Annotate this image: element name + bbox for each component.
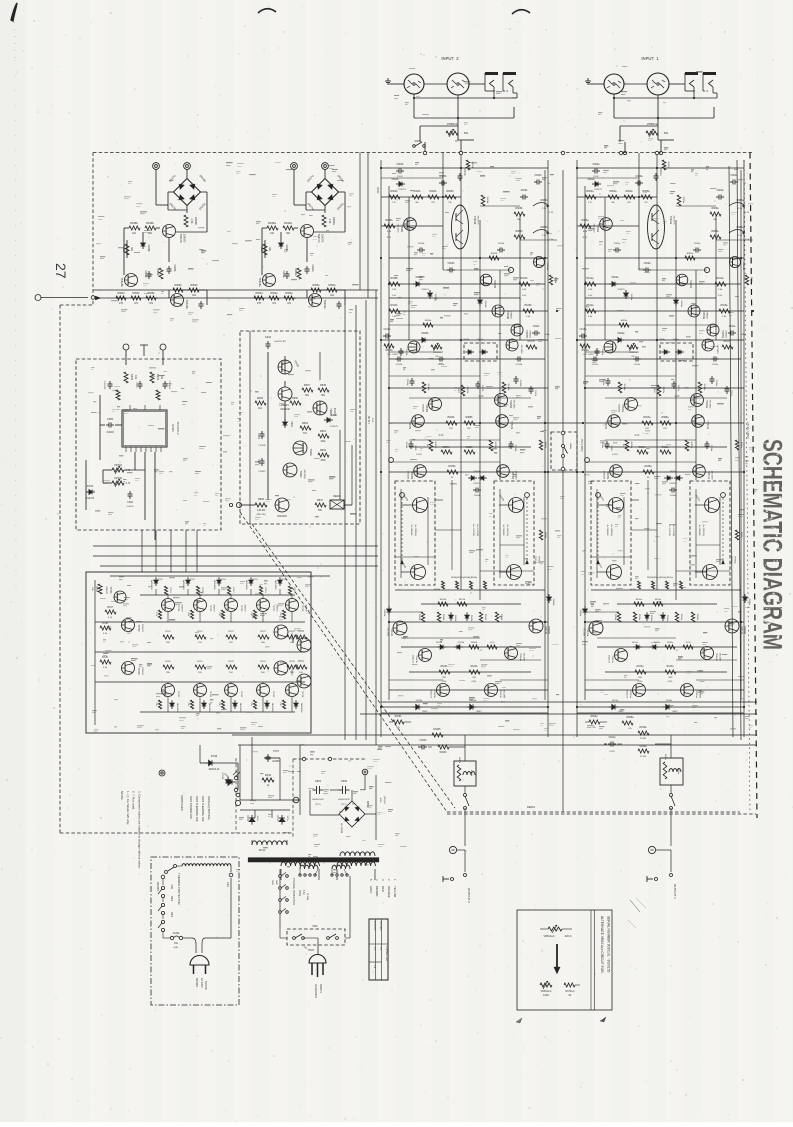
resistor R744 bottom row [282,700,285,709]
transistor TR618b 2SC2240 [125,274,138,287]
svg-text:2SB647: 2SB647 [105,586,107,595]
svg-text:C623a: C623a [311,264,314,272]
svg-text:10k: 10k [250,612,252,615]
resistor R304 [116,390,120,400]
resistor R688a 220 [660,421,671,425]
svg-text:TR713: TR713 [272,691,274,698]
SW1 dashed box 220V [287,929,345,945]
transistor TR651a output2 [607,565,622,580]
svg-text:B+ 0.47/2W: B+ 0.47/2W [472,524,474,536]
ground symbol near input 1 [588,83,594,85]
diode D607b [482,350,485,354]
svg-text:C612b: C612b [396,364,403,366]
diode D606bb [449,615,453,618]
transistor TR621a filler [730,257,741,268]
resistor R625a 33 [685,440,689,451]
diode D604b [478,300,483,303]
dashed vertical power left [235,758,237,833]
transistor TR703 2SD637 [122,662,135,675]
resistor R724 mid row [287,635,298,639]
svg-text:2SA1112: 2SA1112 [430,690,433,699]
resistor R625b 33 [489,440,493,451]
wire long rails under blocks [93,545,378,547]
svg-text:4.7k: 4.7k [126,482,131,485]
svg-text:R656a: R656a [285,292,293,295]
terminal pin chb L1 [389,458,394,463]
alternate resistor R672ab 82 [564,983,575,987]
svg-text:4x 2SB554: 4x 2SB554 [606,525,608,536]
transistor TR650a output1 [609,498,624,513]
resistor R656a 47k [589,720,600,724]
svg-text:C625b: C625b [418,243,425,245]
wire chb extra rails [381,177,443,179]
svg-text:R633b(R629b)(R634b)(R630b): R633b(R629b)(R634b)(R630b) [451,577,477,579]
transistor TR704 2SD637 top row [162,599,175,612]
svg-text:R667: R667 [317,499,324,502]
resistor R743 bottom row [253,700,256,709]
scan mark arc top center [512,10,530,14]
svg-text:R663: R663 [258,498,265,501]
svg-text:1.6V: 1.6V [522,295,527,297]
transistor TR604a 2SA810 [688,305,700,317]
svg-text:D602a: D602a [612,277,619,279]
svg-text:R604a: R604a [625,190,633,193]
svg-text:R638b: R638b [442,614,444,621]
capacitor C322 100/16V BP [267,341,269,344]
svg-text:R608b: R608b [515,207,523,210]
svg-text:TR611a: TR611a [586,628,588,637]
svg-text:R722: R722 [228,631,234,633]
svg-text:D702: D702 [87,484,94,488]
svg-text:TR616a: TR616a [695,690,697,699]
transistor TR613a [615,649,628,662]
resistor R688b 220 [464,421,475,425]
svg-text:1.6V: 1.6V [392,295,397,297]
svg-text:TR617a: TR617a [317,233,321,243]
svg-text:R730: R730 [165,661,171,663]
transistor TR604b 2SA810 [492,305,504,317]
svg-text:R624b: R624b [434,442,436,449]
dashed box bias diodes chb [464,343,497,361]
transformer secondary left [281,862,319,866]
svg-text:(2x 2SD424): (2x 2SD424) [506,524,508,536]
svg-text:R606a: R606a [581,219,589,222]
wire cha horizontal rails [577,167,744,169]
svg-text:R602a: R602a [586,190,594,193]
diode D604a [674,300,679,303]
svg-text:TR611a: TR611a [707,471,709,480]
svg-text:MG5395X: MG5395X [208,703,210,713]
svg-text:SWITCHES: SWITCHES [180,795,184,811]
svg-text:C620b: C620b [474,495,481,497]
resistor R629a [660,450,671,454]
svg-text:D609a: D609a [618,333,625,335]
resistor R608b [514,212,525,216]
svg-text:TA7317P-2: TA7317P-2 [176,422,180,435]
svg-text:10k: 10k [250,702,252,705]
svg-text:4.7k: 4.7k [126,469,131,472]
svg-text:1S2473: 1S2473 [594,189,602,191]
transistor TR702 2SD637 [122,619,135,632]
svg-text:6.3A: 6.3A [302,890,305,895]
wire cha vertical rails [576,160,578,737]
wire IC left [100,424,105,426]
relay dashed line RE601 [447,811,740,813]
svg-text:R602b: R602b [390,190,398,193]
svg-text:R645a: R645a [639,726,647,729]
svg-text:TR621a: TR621a [742,262,744,271]
svg-text:R615a: R615a [720,304,728,307]
resistor R707 4.7k [105,610,116,614]
svg-text:SCHEMATIC DIAGRAM: SCHEMATIC DIAGRAM [758,439,788,650]
svg-text:270: 270 [257,302,262,305]
svg-text:TR708: TR708 [301,605,303,612]
svg-text:R664: R664 [302,422,309,425]
svg-text:SG-1ZB44: SG-1ZB44 [340,823,342,834]
diode D710 MG5395X bottom row [170,703,174,706]
svg-text:R643b: R643b [441,666,448,668]
svg-text:D608a: D608a [659,339,666,341]
svg-text:L651b: L651b [470,770,472,777]
svg-text:C613a: C613a [601,349,603,356]
svg-text:R651a: R651a [294,268,297,276]
svg-text:R623b: R623b [447,416,455,419]
svg-text:1.6V: 1.6V [588,295,593,297]
speaker switch dashed box [551,432,577,470]
svg-text:R649b: R649b [146,221,154,225]
resistor R731 10k [296,665,307,669]
resistor R624a 33 [625,440,629,451]
transistor TR619b [171,294,184,307]
svg-text:0.0018: 0.0018 [127,506,134,508]
wire inter-channel bridges [545,422,583,424]
main dashed border top [93,152,753,154]
svg-text:R688a: R688a [661,416,669,419]
svg-text:31Tb: 31Tb [256,816,258,822]
main dashed border right outer [750,153,757,819]
svg-text:R723: R723 [260,631,266,633]
diode D606b [468,350,471,354]
transistor TR716 right big upper [274,625,288,639]
svg-text:R610a: R610a [636,599,643,601]
svg-text:R616a: R616a [582,350,589,352]
coil L651a box [660,758,683,785]
svg-text:TR704: TR704 [177,605,179,612]
svg-text:220 Ω: 220 Ω [565,935,572,938]
diode D708b vertical [225,780,230,783]
wire bridge loop a [294,204,306,206]
svg-text:R658a: R658a [626,716,634,719]
svg-text:R629a: R629a [662,447,669,449]
input jack J-2 outer [404,74,424,94]
relay contact a [670,794,673,797]
wire verticals into array [141,530,143,572]
svg-text:50/60Hz: 50/60Hz [204,981,206,990]
wire long rail y714 [360,713,757,715]
svg-text:1.8k 2W: 1.8k 2W [257,510,266,512]
wire array inner rails [94,580,96,725]
contact chain 100V [161,875,165,879]
svg-text:TR619a: TR619a [323,299,327,309]
svg-text:R628b: R628b [418,614,420,621]
svg-text:D623a: D623a [670,471,677,473]
resistor R713 top row [259,586,262,595]
resistor R622b [461,385,465,396]
resistor R619b [422,382,426,393]
resistor R656b [146,296,156,300]
pencil mark right of alt box [600,1017,606,1022]
diode D703 MG5395X top row [186,580,190,583]
output terminal 2 [449,846,456,853]
svg-text:D708: D708 [211,754,218,758]
transistor TR650b output1 [413,498,428,513]
svg-text:R627b: R627b [443,447,450,449]
svg-text:R646a: R646a [640,746,647,748]
svg-text:TR605a: TR605a [721,330,723,339]
svg-text:R616b: R616b [386,350,393,352]
transistor TR717 right big lower [274,661,288,675]
capacitor C602a [592,170,595,172]
svg-text:D651: D651 [366,801,370,808]
svg-text:10k: 10k [279,702,281,705]
svg-text:R646b: R646b [440,752,447,754]
dashed standby lines power [292,759,294,838]
transistor TR615a [633,684,646,697]
transformer primary coil [252,841,287,845]
terminal pin cha L1 [585,458,590,463]
capacitor C707 22/35V [267,754,269,757]
svg-text:C614a: C614a [712,364,719,366]
svg-text:C615a: C615a [715,380,717,387]
svg-text:(3.15A): (3.15A) [306,893,309,900]
svg-text:R648b: R648b [130,221,138,225]
diode D696a [743,597,748,600]
svg-text:MG5395X: MG5395X [300,703,302,713]
svg-text:+75.1V (+58V): +75.1V (+58V) [746,422,750,439]
svg-text:SW2: SW2 [170,896,172,902]
svg-text:C620a: C620a [670,495,677,497]
capacitor C615b [515,376,517,379]
resistor R659 10k [255,401,266,405]
winding right terminal RED [230,866,232,872]
svg-text:SW3: SW3 [271,880,273,886]
svg-text:D696a: D696a [748,599,750,606]
capacitor C303 [164,381,166,384]
resistor R638a [633,612,636,622]
wire top row 4 [279,589,281,595]
terminal circled E cha left [596,493,601,498]
resistor R636a 33 [643,470,654,474]
resistor R695b filler [539,530,542,540]
resistor R635a 4.7 [665,645,675,649]
transistor TR603b [480,274,492,286]
capacitor C613a 0.95V [596,348,598,351]
svg-text:R660: R660 [292,397,299,400]
svg-text:D603b: D603b [434,294,436,301]
wire input 2 [394,83,404,85]
svg-text:INPUT 2: INPUT 2 [441,56,459,61]
IC IC301 TA7317P [122,410,167,447]
diode pair D623b [471,476,474,480]
transistor TR651b output2 [411,565,426,580]
resistor R342 1k [262,778,274,782]
AC 100V box border dash-dot [151,857,239,1005]
svg-text:C606a: C606a [644,263,651,265]
power bridge D651 [339,801,365,827]
resistor R614a 1.8k [585,309,596,313]
terminal circle T1 [123,344,129,350]
svg-text:FUSE: FUSE [298,890,300,897]
wire inter-channel switch line [562,170,564,812]
AC plug 220V [309,955,326,964]
svg-text:C626b: C626b [144,270,147,278]
dashed box output pair right chb [494,481,534,585]
svg-text:C707: C707 [273,749,280,753]
open node chb top2 [459,151,462,154]
svg-text:R706: R706 [95,586,97,592]
rectifier bridge D615a-D618a [312,179,339,206]
alternate pot VR601ab 220 [548,927,562,931]
resistor R603b 30k [412,195,423,199]
terminal circle a1 [291,163,298,170]
svg-text:4.15V: 4.15V [612,454,618,456]
terminal circled minus [293,797,299,803]
svg-text:2.1V: 2.1V [479,396,484,398]
svg-text:2SD637: 2SD637 [276,604,278,612]
diode D711 MG5395X bottom row [202,703,206,706]
svg-text:TR703: TR703 [137,667,140,675]
svg-text:(65V)x2: (65V)x2 [383,796,385,804]
resistor R734 mid row2 [287,665,298,669]
svg-text:1S2473: 1S2473 [86,497,95,500]
svg-text:2SA1112: 2SA1112 [626,690,629,699]
scan mark top-left slash [11,3,17,21]
terminal arrow left edge [35,295,41,301]
LED D701 [229,779,232,784]
resistor R651a [297,268,301,279]
svg-text:R649a: R649a [284,221,292,225]
svg-text:31Tb: 31Tb [286,816,288,822]
open node chb top1 [423,151,426,154]
svg-text:2SC943X: 2SC943X [277,516,287,518]
svg-text:R659: R659 [257,397,264,400]
capacitor C609b [520,196,523,198]
diode D607a [678,350,681,354]
resistor R644b 330 [469,670,480,674]
resistor R711 top row [196,586,199,595]
resistor R611a [653,602,663,606]
resistor R650b [125,244,129,255]
capacitor C620b [473,489,476,491]
big transistor TR718 right outside [297,638,311,652]
svg-text:C617a: C617a [677,385,679,392]
transistor TR615b [437,684,450,697]
resistor R622a [657,385,661,396]
transistor TR621 2SC2240 [278,387,292,401]
svg-text:TR614a: TR614a [715,653,717,662]
resistor R693a filler [619,323,629,327]
svg-text:SW4b: SW4b [414,139,422,143]
svg-text:10k: 10k [155,702,157,705]
capacitor C620a [669,489,672,491]
capacitor C651 18000/100V [313,789,317,791]
svg-text:TR609b: TR609b [509,400,511,409]
svg-text:27: 27 [53,263,69,279]
svg-text:NOTE:: NOTE: [120,791,124,800]
svg-text:R694b: R694b [544,442,546,449]
dual transistor oval TR601a 2SC1775 [648,205,665,249]
resistor R629b [464,450,475,454]
svg-text:R608a: R608a [711,207,719,210]
resistor R619a [618,382,622,393]
svg-text:31Vx2: 31Vx2 [259,849,266,852]
svg-text:18000/100V: 18000/100V [338,799,350,801]
svg-text:1.5k: 1.5k [190,219,194,225]
svg-text:R644a: R644a [667,666,674,668]
svg-text:R733: R733 [260,661,266,663]
svg-text:(4x 0.47/2W): (4x 0.47/2W) [672,524,674,536]
svg-text:(2x 2SB554): (2x 2SB554) [414,524,416,536]
svg-text:1. ( ): For Model 320 only.: 1. ( ): For Model 320 only. [126,791,130,825]
svg-text:TR608b: TR608b [410,471,412,480]
svg-text:BROWN: BROWN [156,882,158,891]
svg-text:D705: D705 [253,579,259,581]
svg-text:(220): (220) [668,681,673,683]
svg-text:R656b: R656b [147,292,155,295]
svg-text:1S2473: 1S2473 [398,189,406,191]
svg-text:INPUT 1: INPUT 1 [641,56,659,61]
transistor TR620 2SC2722 [278,360,292,374]
svg-text:R620: R620 [457,388,459,394]
svg-text:2SC1775: 2SC1775 [477,215,479,225]
svg-text:TR602b: TR602b [400,224,402,233]
main dashed border bottom-left [60,832,293,834]
svg-text:R618a: R618a [703,384,705,391]
resistor R645a [638,731,649,735]
svg-text:C617b: C617b [481,385,483,392]
resistor R663 1.8k 2W [255,503,267,507]
wire cluster b mid [124,227,129,229]
svg-text:TR619b: TR619b [185,299,189,309]
transistor TR608a [610,465,623,478]
capacitor C601b [459,173,461,176]
svg-text:100V: 100V [379,797,381,803]
resistor R680b [514,235,525,239]
svg-text:R657: R657 [304,384,311,387]
svg-text:TR701: TR701 [109,586,112,594]
svg-text:D604b: D604b [484,301,486,308]
svg-text:R604b: R604b [429,190,437,193]
svg-text:MG5395X: MG5395X [213,580,215,590]
terminal circled node chb [508,267,513,272]
main dashed border left lower [59,305,61,833]
dashed box output pair right cha [690,481,730,585]
svg-text:C601a: C601a [659,169,661,176]
capacitor C611b 140p [532,332,535,334]
wire dashed diagonal to relay line [240,512,447,812]
svg-text:R694a: R694a [740,442,742,449]
svg-text:110-120V: 110-120V [373,921,375,931]
switch SW5 speaker [561,431,565,435]
diode D613a VB6C [612,704,615,709]
svg-text:R619a: R619a [623,384,625,391]
transistor TR611xb [497,465,510,478]
alternate pot VR601ab 100 [540,983,552,987]
svg-text:1.6V: 1.6V [718,295,723,297]
capacitor C616b [411,378,413,381]
svg-text:TR613a: TR613a [611,655,613,664]
svg-text:2SA810: 2SA810 [529,330,532,338]
